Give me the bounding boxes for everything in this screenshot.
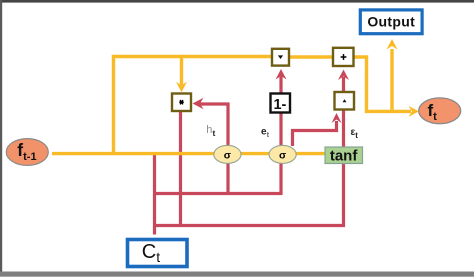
node f_t ellipse bbox=[419, 98, 461, 124]
frame left bar bbox=[0, 0, 2, 272]
arrowhead crimson left into * box right side bbox=[193, 98, 204, 109]
svg-text:1-: 1- bbox=[273, 97, 286, 113]
arrowhead crimson up into dot box bottom bbox=[276, 69, 287, 80]
wire yellow after + box, down then right to f_t bbox=[354, 57, 412, 111]
wire yellow left riser bbox=[112, 55, 115, 155]
wire crimson v1: Ct riser from main yellow line down past bus lines bbox=[153, 155, 156, 235]
wire crimson v3a: sigma1 up, then left arrow into * box (h_t) bbox=[198, 104, 228, 146]
svg-text:εt: εt bbox=[351, 127, 359, 140]
arrowhead crimson up into + box bottom bbox=[338, 70, 349, 81]
wire crimson bus line 1 bbox=[153, 192, 282, 195]
arrowhead crimson up into ^ box bottom bbox=[332, 113, 342, 123]
box pointwise dot (small triangle glyph) bbox=[272, 49, 289, 66]
box multiply * bbox=[172, 94, 191, 112]
svg-text:et: et bbox=[261, 127, 270, 140]
svg-text:tanf: tanf bbox=[330, 147, 359, 164]
node sigma1 ellipse bbox=[214, 145, 241, 163]
box plus + bbox=[333, 48, 354, 66]
wire yellow branch up to Output bbox=[390, 49, 393, 113]
arrowhead yellow up into Output bbox=[387, 39, 398, 50]
wire crimson bus line 2 bbox=[153, 224, 345, 227]
node f_t-1 ellipse bbox=[6, 139, 48, 166]
box 1- bbox=[271, 94, 291, 113]
box C_t bbox=[128, 240, 188, 267]
node sigma2 ellipse bbox=[269, 145, 296, 163]
svg-text:Output: Output bbox=[367, 14, 415, 30]
wire crimson v3b: sigma1 bottom down to bus line 1 bbox=[226, 163, 229, 195]
wire crimson v2: multiply box * down to lower bus bbox=[179, 111, 182, 226]
wire yellow top line to dot box bbox=[112, 55, 272, 58]
svg-text:σ: σ bbox=[224, 149, 231, 161]
svg-text:h: h bbox=[206, 124, 212, 136]
wire crimson v5: chain + box to ^ box to tanf to bus line 2 bbox=[342, 77, 345, 227]
svg-text:σ: σ bbox=[279, 149, 286, 161]
box caret ^ bbox=[335, 92, 355, 110]
box tanf bbox=[325, 147, 363, 164]
svg-text:t: t bbox=[213, 128, 216, 138]
wire yellow drop into * box bbox=[180, 55, 183, 85]
wire crimson p6: sigma2 top-right up and right, arrow up into ^ box (e_t path) bbox=[293, 121, 337, 146]
wire yellow stub between dot box and + box bbox=[289, 55, 333, 58]
box Output bbox=[360, 10, 422, 34]
frame top bar bbox=[0, 0, 474, 3]
wire yellow main line from f_t-1 through sigmas to tanf bbox=[52, 152, 326, 155]
frame bottom bar bbox=[0, 272, 474, 277]
wire crimson v4: chain dot-box to 1- box to sigma2 to bus line 1 bbox=[279, 76, 282, 195]
arrowhead yellow into * box top bbox=[176, 82, 187, 93]
arrowhead yellow into f_t bbox=[409, 106, 420, 117]
